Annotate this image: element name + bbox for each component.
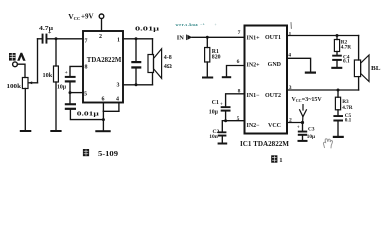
svg-text:10k: 10k: [43, 72, 53, 79]
node pin5: [69, 91, 72, 94]
node R1 top: [206, 36, 209, 39]
svg-text:6: 6: [237, 59, 240, 65]
svg-text:IN2−: IN2−: [247, 123, 261, 129]
node (10k top): [55, 37, 58, 40]
wire pin3 OUT2: [287, 89, 359, 91]
node VCC: [301, 121, 304, 124]
svg-text:CC: CC: [296, 98, 302, 103]
speaker BL: [358, 36, 360, 61]
svg-text:4-8: 4-8: [164, 55, 172, 61]
wire pin8 to 10μ: [70, 66, 83, 76]
svg-text:1: 1: [289, 31, 292, 37]
Vcc terminal: [99, 14, 104, 19]
svg-text:4: 4: [116, 97, 119, 103]
caption 图 1: [271, 155, 282, 164]
pin number labels: [237, 30, 292, 123]
svg-text:2: 2: [99, 34, 102, 40]
potentiometer RP 100k: [22, 78, 28, 89]
wire input to pot: [18, 64, 26, 77]
ground (pin6): [222, 76, 231, 78]
capacitor C3 10μ: [302, 123, 304, 131]
svg-text:+: +: [65, 70, 68, 76]
ground (10k): [50, 130, 61, 132]
svg-text:+9V: +9V: [81, 13, 94, 21]
caption 图 5-109: [83, 149, 119, 158]
svg-text:1: 1: [117, 38, 120, 44]
svg-text:0.01μ: 0.01μ: [135, 26, 160, 33]
svg-text:IN2+: IN2+: [247, 62, 261, 68]
svg-text:100k: 100k: [7, 83, 22, 90]
ground (C2): [218, 143, 228, 145]
svg-text:IN: IN: [177, 34, 184, 41]
capacitor C4 0.1: [332, 55, 342, 57]
wire 10k to ground: [55, 82, 57, 130]
ground (C5): [333, 136, 344, 138]
wire pin6 to ground: [227, 66, 245, 77]
ground (C3): [298, 140, 308, 142]
hand cursor watermark: [323, 139, 332, 148]
svg-text:0.1: 0.1: [343, 58, 350, 64]
wire node to pin 5: [70, 92, 83, 94]
svg-text:+: +: [215, 23, 217, 27]
svg-text:VCC: VCC: [268, 123, 281, 129]
svg-text:C1: C1: [212, 100, 219, 106]
wire pin3 to speaker: [123, 84, 153, 86]
ground (IC): [95, 130, 110, 132]
ground (pot): [20, 130, 32, 132]
svg-text:10μ: 10μ: [307, 134, 315, 140]
capacitor C1 10μ: [221, 106, 231, 108]
ground (C4): [331, 67, 342, 69]
pot wire to ground: [24, 89, 26, 131]
svg-text:820: 820: [212, 55, 221, 61]
resistor R1 820: [206, 37, 208, 47]
svg-text:0.01μ: 0.01μ: [77, 111, 100, 118]
label Vcc=3~15V: [292, 97, 323, 103]
resistor R3 4.7R: [337, 90, 339, 97]
wire IN to pin 7: [192, 36, 245, 38]
wire to ground: [102, 111, 104, 130]
svg-text:0.1: 0.1: [345, 118, 352, 124]
wire pin2 VCC: [287, 122, 303, 124]
wire cap to pin7: [47, 38, 83, 40]
node top of 0.01μ: [135, 37, 138, 40]
svg-text:OUT2: OUT2: [265, 93, 281, 99]
scan mark: [290, 23, 292, 29]
capacitor 10μ: [65, 76, 76, 78]
svg-text:IN1−: IN1−: [247, 93, 261, 99]
watermark: [176, 22, 217, 27]
node R2 top: [336, 34, 339, 37]
wire 0.01μ to ground node: [70, 110, 103, 120]
svg-text:C3: C3: [308, 126, 315, 132]
resistor 10k: [55, 39, 57, 66]
pin 6 wire: [102, 103, 104, 112]
wire pin5: [222, 121, 244, 132]
svg-text:IC1 TDA2822M: IC1 TDA2822M: [240, 141, 290, 148]
ground (pin4): [305, 72, 316, 74]
svg-text:4Ω: 4Ω: [164, 63, 172, 70]
capacitor 0.01μ (bottom): [65, 103, 76, 105]
capacitor C5 0.1: [333, 115, 343, 117]
wire pin6-pin4 join: [103, 110, 119, 112]
node R3 top: [337, 89, 340, 92]
wire 10μ to pin5 node: [69, 83, 71, 104]
svg-text:6: 6: [102, 97, 105, 103]
wire pin1 to speaker: [123, 38, 153, 40]
svg-text:4.7μ: 4.7μ: [39, 25, 53, 32]
wire wiper to cap: [37, 39, 39, 83]
input arrow: [187, 35, 192, 40]
pin 4 wire: [118, 103, 120, 112]
resistor R2 4.7R: [336, 36, 338, 40]
svg-text:BL: BL: [371, 65, 381, 72]
svg-text:TDA2822M: TDA2822M: [87, 56, 122, 64]
svg-text:10μ: 10μ: [57, 85, 67, 91]
input terminal circle: [13, 62, 18, 67]
svg-text:10n: 10n: [209, 134, 218, 140]
svg-text:IN1+: IN1+: [247, 35, 261, 41]
svg-text:7: 7: [85, 39, 88, 45]
svg-text:5-109: 5-109: [98, 150, 119, 158]
op-amp U2 IC1 TDA2822M box: [245, 26, 288, 134]
svg-text:OUT1: OUT1: [265, 35, 281, 41]
svg-text:3: 3: [117, 83, 120, 89]
wire pin4 GND to ground: [287, 58, 311, 71]
node pin5/C1: [224, 119, 227, 122]
capacitor C2 10n: [218, 131, 227, 133]
svg-text:GND: GND: [268, 62, 282, 68]
wire pin1 OUT1: [287, 35, 359, 37]
node bottom of 0.01μ: [135, 83, 138, 86]
svg-text:+: +: [297, 125, 300, 131]
label 输入 (input): [9, 53, 26, 61]
label Vcc +9V: [68, 12, 93, 21]
svg-text:wrr.s.kua: wrr.s.kua: [176, 22, 199, 27]
svg-text:- +: - +: [201, 22, 205, 26]
speaker BL1: [152, 39, 154, 55]
svg-text:7: 7: [238, 30, 241, 36]
ground (R1): [202, 77, 213, 79]
Vcc arrow terminal: [300, 105, 307, 123]
svg-text:1: 1: [279, 157, 282, 164]
capacitor 4.7μ: [42, 34, 44, 44]
svg-text:=3~15V: =3~15V: [302, 97, 323, 103]
node ground join: [102, 118, 105, 121]
pot wiper: [29, 82, 38, 84]
svg-text:+: +: [220, 101, 223, 107]
op-amp U1 TDA2822M box: [83, 31, 123, 103]
svg-text:5: 5: [84, 92, 87, 98]
svg-text:4.7R: 4.7R: [342, 105, 353, 111]
svg-text:10μ: 10μ: [209, 109, 219, 115]
svg-text:8: 8: [85, 65, 88, 71]
wire pin8 to C1: [226, 94, 245, 106]
svg-text:4.7R: 4.7R: [341, 44, 352, 50]
capacitor 0.01μ (output): [135, 39, 137, 61]
svg-text:CC: CC: [74, 16, 81, 21]
